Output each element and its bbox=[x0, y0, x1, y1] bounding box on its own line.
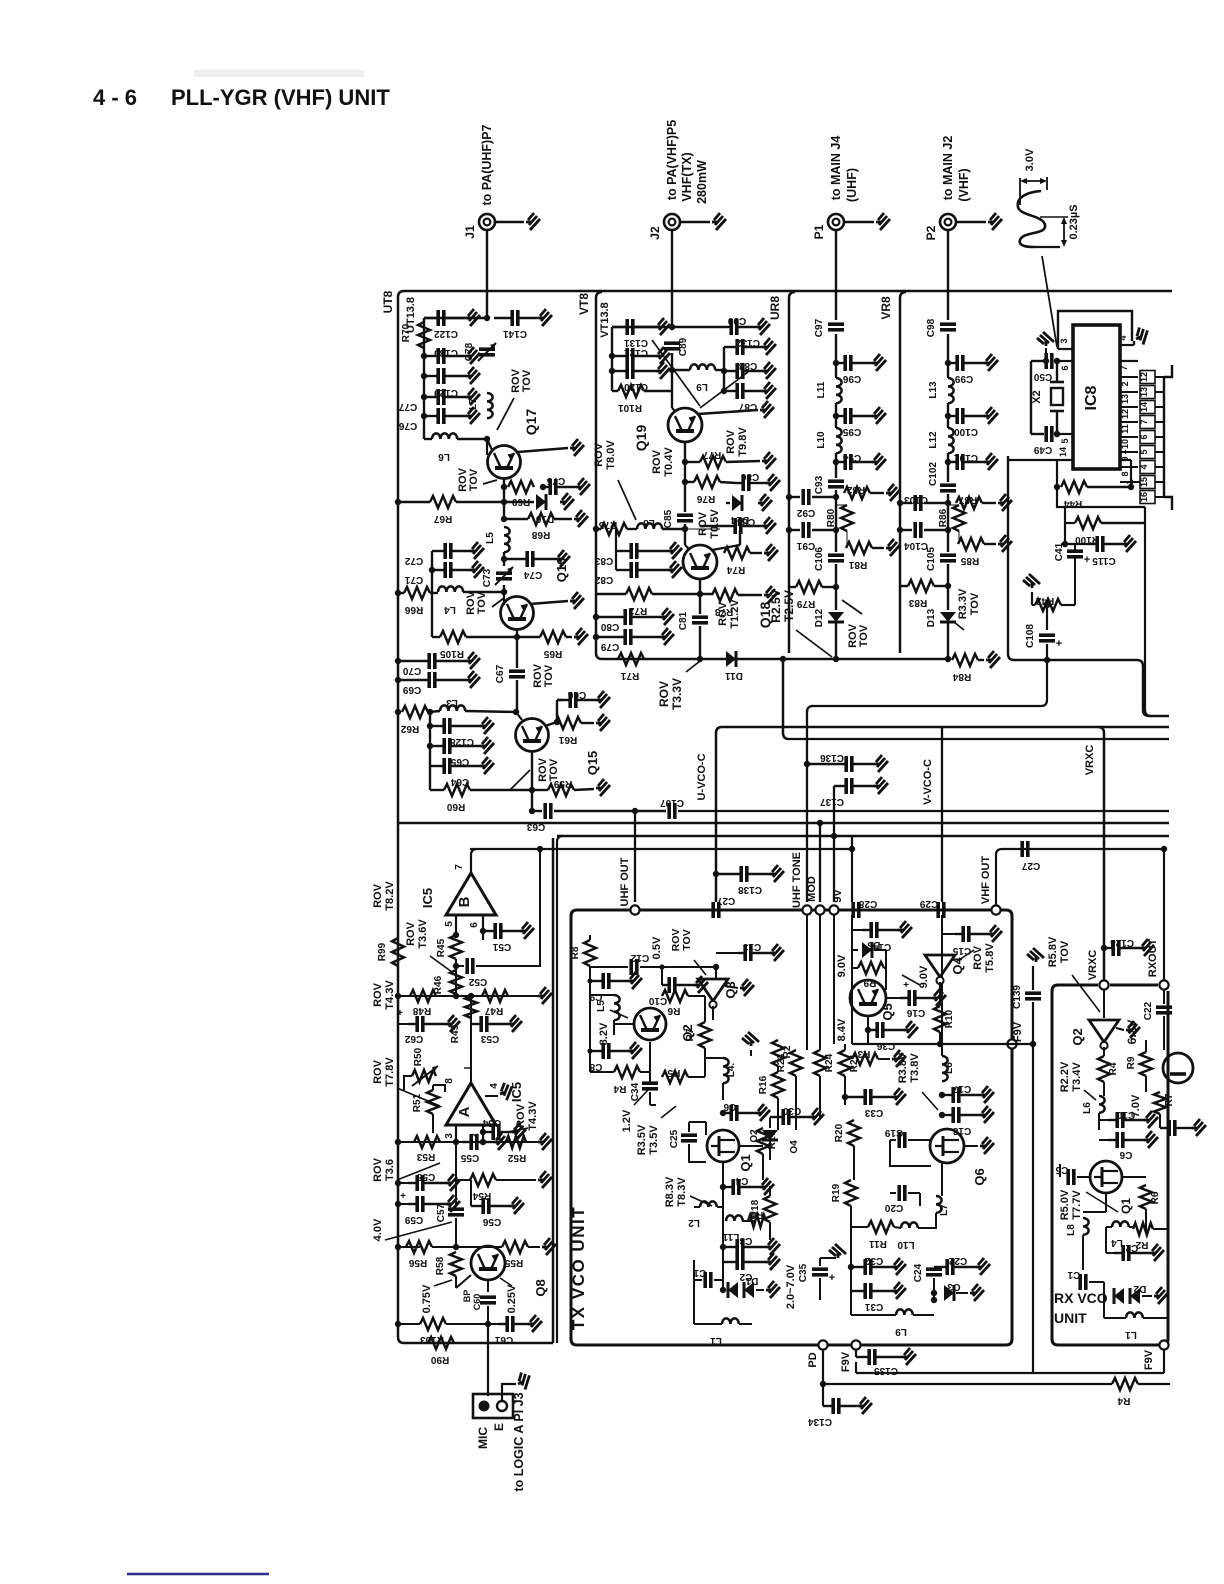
IC8 pins 15 16 bbox=[1140, 476, 1155, 489]
svg-text:C51: C51 bbox=[492, 941, 511, 952]
IC8 pin 4 ground bbox=[1120, 344, 1134, 346]
resistor R70 bbox=[418, 322, 430, 348]
svg-text:T4.3V: T4.3V bbox=[384, 980, 396, 1010]
svg-text:PD: PD bbox=[807, 1352, 819, 1367]
bus line y823 bbox=[398, 822, 1169, 824]
svg-text:R24: R24 bbox=[824, 1053, 835, 1072]
capacitor C7 rxvco edge bbox=[1160, 1127, 1168, 1129]
svg-text:ROV: ROV bbox=[372, 982, 384, 1007]
svg-text:R79: R79 bbox=[796, 598, 815, 609]
ground Q1 txvco bbox=[722, 1162, 724, 1170]
capacitor C63 series bbox=[545, 803, 551, 819]
svg-text:L3: L3 bbox=[446, 697, 458, 708]
svg-text:Q3: Q3 bbox=[723, 981, 738, 998]
svg-text:R50: R50 bbox=[413, 1047, 424, 1066]
svg-text:R80: R80 bbox=[826, 508, 837, 527]
svg-text:L4: L4 bbox=[444, 604, 456, 615]
svg-text:C79: C79 bbox=[600, 641, 619, 652]
pin4 ground bbox=[485, 1095, 498, 1097]
wire pin14 to R44 bbox=[1056, 460, 1058, 487]
resistor R8 bbox=[589, 935, 591, 940]
top border line bbox=[404, 290, 1172, 293]
resistor R44 bbox=[1054, 484, 1060, 490]
svg-text:C121: C121 bbox=[624, 347, 648, 358]
svg-text:3: 3 bbox=[444, 1133, 455, 1139]
capacitor C32 bbox=[851, 1266, 864, 1268]
svg-text:R67: R67 bbox=[433, 513, 452, 524]
wire Q8 emitter bbox=[487, 1280, 489, 1292]
svg-text:C141: C141 bbox=[503, 328, 527, 339]
capacitor C105 series bbox=[940, 555, 956, 561]
capacitor C137 bbox=[834, 785, 845, 787]
svg-text:6.2V: 6.2V bbox=[1125, 1020, 1139, 1045]
terminal UHF TONE bbox=[802, 905, 811, 914]
connector P1 bbox=[828, 214, 844, 230]
FET Q6 bbox=[930, 1129, 964, 1163]
capacitor C79 bbox=[593, 634, 599, 640]
capacitor C122 bbox=[424, 317, 437, 319]
svg-text:C28: C28 bbox=[858, 898, 877, 909]
svg-text:C22: C22 bbox=[948, 1255, 967, 1266]
svg-text:L10: L10 bbox=[816, 431, 827, 449]
svg-text:Q8: Q8 bbox=[533, 1279, 548, 1296]
svg-text:to PA(UHF)P7: to PA(UHF)P7 bbox=[480, 124, 494, 205]
svg-text:R5: R5 bbox=[667, 1067, 680, 1078]
resistor R101 bbox=[612, 390, 618, 392]
terminal MOD bbox=[815, 905, 824, 914]
node L9 bbox=[669, 367, 675, 373]
svg-text:+: + bbox=[1084, 554, 1090, 566]
svg-text:C56: C56 bbox=[482, 1216, 501, 1227]
capacitor C5 series bbox=[1059, 1164, 1061, 1177]
VR8 block left border bbox=[900, 292, 906, 653]
svg-text:C49: C49 bbox=[1033, 444, 1052, 455]
svg-text:C61: C61 bbox=[494, 1334, 513, 1345]
svg-text:D2: D2 bbox=[1133, 1283, 1146, 1294]
svg-text:C36: C36 bbox=[876, 1040, 895, 1051]
svg-text:VT8: VT8 bbox=[577, 293, 591, 315]
svg-text:R56: R56 bbox=[408, 1257, 427, 1268]
svg-text:+: + bbox=[829, 1272, 835, 1284]
node J1/C141/C122 row bbox=[484, 315, 490, 321]
bias row y996 bbox=[398, 995, 540, 997]
capacitor C18 bbox=[942, 1114, 952, 1116]
RX VCO UNIT box bbox=[1052, 991, 1168, 1345]
svg-text:R6: R6 bbox=[667, 1005, 680, 1016]
svg-text:T7.7V: T7.7V bbox=[1071, 1190, 1083, 1220]
svg-text:R86: R86 bbox=[938, 508, 949, 527]
svg-text:C100: C100 bbox=[954, 426, 978, 437]
svg-text:B: B bbox=[456, 896, 473, 907]
inductor L6 txvco bbox=[942, 1056, 948, 1081]
svg-text:C130: C130 bbox=[434, 347, 458, 358]
svg-text:R87: R87 bbox=[958, 494, 977, 505]
resistor R53 bbox=[414, 1136, 440, 1148]
capacitor C1 rxvco bbox=[1082, 1270, 1084, 1282]
svg-text:3: 3 bbox=[1059, 338, 1069, 343]
capacitor C141 bbox=[494, 317, 511, 319]
inductor L8 rxvco bbox=[1105, 1193, 1107, 1212]
svg-text:PLL-YGR (VHF) UNIT: PLL-YGR (VHF) UNIT bbox=[171, 85, 390, 110]
bus y1384 with R4 bbox=[822, 1349, 824, 1384]
capacitor C76 bbox=[421, 413, 427, 419]
svg-text:MOD: MOD bbox=[806, 876, 818, 902]
svg-text:C19: C19 bbox=[884, 1127, 903, 1138]
svg-text:L9: L9 bbox=[696, 381, 708, 392]
terminal UHF OUT bbox=[630, 905, 639, 914]
svg-text:R11: R11 bbox=[869, 1238, 887, 1249]
resistor R9 rxvco bbox=[1140, 1052, 1152, 1076]
svg-text:C99: C99 bbox=[954, 373, 973, 384]
transistor Q2 txvco bbox=[634, 1008, 666, 1040]
svg-text:C96: C96 bbox=[842, 373, 861, 384]
inductor L13 bbox=[948, 378, 954, 403]
svg-text:L6: L6 bbox=[1082, 1102, 1093, 1114]
svg-text:C13: C13 bbox=[742, 941, 761, 952]
bus y705 bbox=[811, 705, 1041, 707]
svg-text:0.5V: 0.5V bbox=[651, 936, 663, 959]
svg-text:UHF TONE: UHF TONE bbox=[791, 852, 803, 908]
svg-text:VHF(TX): VHF(TX) bbox=[680, 152, 694, 201]
wire F9V down bbox=[1032, 1044, 1034, 1373]
capacitor C14 bbox=[852, 929, 862, 931]
capacitor C72 row bbox=[431, 551, 433, 593]
resistor R2 txvco bbox=[772, 1040, 784, 1066]
svg-text:0.25V: 0.25V bbox=[506, 1284, 518, 1313]
capacitor C66 bbox=[557, 699, 563, 701]
capacitor C69 bbox=[395, 677, 401, 683]
bus y1044 to F9V bbox=[852, 1043, 1033, 1045]
capacitor C107 series bbox=[669, 803, 675, 819]
svg-text:4 - 6: 4 - 6 bbox=[93, 85, 137, 110]
svg-text:C102: C102 bbox=[928, 462, 939, 486]
svg-text:L7: L7 bbox=[939, 1204, 950, 1216]
svg-text:R4: R4 bbox=[613, 1083, 626, 1094]
svg-text:C52: C52 bbox=[468, 976, 487, 987]
svg-text:MIC: MIC bbox=[476, 1427, 490, 1449]
svg-text:O3: O3 bbox=[947, 1281, 961, 1292]
svg-text:RX VCO: RX VCO bbox=[1054, 1290, 1108, 1306]
diode D2 rxvco bbox=[1089, 1281, 1104, 1283]
IC8 pin bus right bbox=[1163, 377, 1165, 497]
svg-text:L8: L8 bbox=[1066, 1224, 1077, 1236]
wire VHF OUT to RXOUT y849 bbox=[1002, 848, 1164, 850]
bus y739 bbox=[789, 738, 1169, 740]
svg-text:D1: D1 bbox=[745, 1275, 758, 1286]
resistor R85 bbox=[958, 531, 960, 544]
wire x852 drop to C28 bbox=[851, 836, 853, 902]
svg-text:+: + bbox=[1056, 638, 1062, 650]
wire Q6 column bbox=[941, 915, 943, 1056]
wire C108 down to bus bbox=[1046, 644, 1048, 700]
capacitor C94 bbox=[835, 453, 837, 478]
resistor R65 bbox=[514, 634, 520, 640]
svg-text:C135: C135 bbox=[874, 1365, 898, 1376]
svg-text:13: 13 bbox=[1139, 387, 1149, 397]
capacitor C124 bbox=[1101, 945, 1107, 951]
svg-text:T3.4V: T3.4V bbox=[1071, 1062, 1083, 1092]
svg-text:5: 5 bbox=[444, 921, 455, 927]
terminal F9V right bbox=[1007, 1039, 1016, 1048]
svg-text:Q16: Q16 bbox=[554, 558, 569, 583]
resistor R100 bbox=[1064, 507, 1066, 523]
wire MOD x820 bbox=[817, 820, 823, 826]
svg-text:R62: R62 bbox=[400, 723, 419, 734]
svg-text:Q2: Q2 bbox=[1070, 1028, 1085, 1045]
svg-text:(VHF): (VHF) bbox=[957, 168, 971, 201]
resistor R51 bbox=[427, 1090, 439, 1114]
capacitor C8 bbox=[590, 1050, 606, 1052]
svg-text:Q6: Q6 bbox=[972, 1168, 987, 1185]
svg-text:VR8: VR8 bbox=[879, 296, 893, 320]
svg-text:TOV: TOV bbox=[681, 929, 693, 950]
resistor R105 bbox=[431, 593, 433, 637]
svg-text:R10: R10 bbox=[944, 1009, 955, 1028]
svg-text:R20: R20 bbox=[834, 1123, 845, 1142]
resistor R54 bbox=[455, 1142, 457, 1180]
capacitor C115 bbox=[1082, 543, 1084, 545]
inductor L11 txvco bbox=[726, 1215, 743, 1221]
svg-text:R2.2V: R2.2V bbox=[1059, 1061, 1071, 1092]
svg-text:T3.5V: T3.5V bbox=[648, 1125, 660, 1155]
resistor R4 rxvco bbox=[1103, 1047, 1105, 1056]
svg-text:6: 6 bbox=[1060, 365, 1070, 370]
svg-text:R48: R48 bbox=[412, 1005, 431, 1016]
svg-text:L11: L11 bbox=[816, 381, 827, 398]
svg-text:R75: R75 bbox=[598, 519, 617, 530]
bias row y1324 bbox=[398, 1323, 420, 1325]
leader Q19 labels bbox=[700, 372, 748, 408]
resistor R81 bbox=[846, 531, 848, 548]
capacitor C96 bbox=[833, 360, 839, 366]
svg-text:7: 7 bbox=[1139, 419, 1149, 424]
svg-text:C58: C58 bbox=[416, 1171, 435, 1182]
svg-text:R4: R4 bbox=[1117, 1395, 1130, 1406]
capacitor C31 bbox=[851, 1290, 864, 1292]
inductor L10 txvco bbox=[901, 1222, 918, 1228]
svg-text:C85: C85 bbox=[663, 509, 674, 528]
capacitor C98 series bbox=[940, 324, 956, 330]
svg-text:L5: L5 bbox=[596, 1000, 607, 1012]
svg-text:X2: X2 bbox=[1031, 390, 1043, 403]
wire P2 to VR8 bbox=[947, 230, 949, 320]
svg-text:T2.5V: T2.5V bbox=[782, 590, 796, 622]
diode D10 bbox=[536, 494, 546, 510]
svg-text:E: E bbox=[492, 1423, 506, 1431]
capacitor C13 bbox=[716, 952, 738, 954]
node Q16 base bbox=[501, 589, 507, 595]
svg-text:C17: C17 bbox=[952, 1083, 971, 1094]
svg-text:C1: C1 bbox=[1067, 1269, 1080, 1280]
svg-text:R49: R49 bbox=[450, 1024, 461, 1043]
bus y811 with C63 C107 bbox=[532, 810, 542, 812]
bias row y1142 bbox=[398, 1141, 540, 1143]
bus y727 from U-VCO-C to VRXC bbox=[716, 727, 1169, 902]
svg-text:T0.5V: T0.5V bbox=[709, 509, 721, 539]
resistor R6 bbox=[665, 995, 667, 997]
node Q15 emitter bbox=[531, 752, 533, 790]
svg-text:VRXC: VRXC bbox=[1087, 950, 1099, 981]
capacitor C129 bbox=[421, 373, 427, 379]
resistor R103 bbox=[420, 1318, 446, 1330]
capacitor C27 on edge bbox=[713, 902, 719, 918]
IC8 pin 7 bbox=[1120, 360, 1138, 362]
bottom border of AF block bbox=[404, 1342, 553, 1345]
capacitor C90 bbox=[672, 326, 726, 328]
resistor R18 bbox=[764, 1196, 776, 1222]
svg-text:UR8: UR8 bbox=[768, 296, 782, 320]
svg-text:C88: C88 bbox=[738, 360, 757, 371]
svg-text:C86: C86 bbox=[740, 471, 759, 482]
ground Q6 gate bbox=[963, 1145, 978, 1147]
terminal RXOUT bbox=[1159, 980, 1168, 989]
wire op-amp B output bus y849 bbox=[470, 848, 852, 850]
resistor R19 bbox=[845, 1180, 857, 1206]
resistor R87 bbox=[948, 502, 958, 504]
capacitor C138 bbox=[713, 871, 719, 877]
svg-text:C104: C104 bbox=[904, 540, 928, 551]
svg-text:C35: C35 bbox=[798, 1263, 809, 1282]
wire Q16 collector to ground bbox=[530, 601, 568, 604]
svg-text:to LOGIC A PI J3: to LOGIC A PI J3 bbox=[512, 1392, 526, 1491]
svg-text:+: + bbox=[400, 1191, 406, 1202]
svg-text:C54: C54 bbox=[482, 1117, 501, 1128]
svg-text:16: 16 bbox=[1139, 492, 1149, 502]
resistor R48 bbox=[410, 990, 436, 1002]
capacitor C139 series bbox=[1032, 966, 1034, 990]
svg-text:L5: L5 bbox=[485, 532, 496, 544]
wire RXOUT drop bbox=[1163, 849, 1165, 980]
svg-text:R82: R82 bbox=[846, 484, 865, 495]
svg-text:C62: C62 bbox=[404, 1033, 423, 1044]
capacitor C52 series bbox=[453, 963, 459, 969]
resistor R56 bbox=[406, 1241, 432, 1253]
capacitor C20 series bbox=[890, 1192, 896, 1194]
svg-text:R66: R66 bbox=[404, 604, 423, 615]
svg-text:ROV: ROV bbox=[515, 1103, 527, 1128]
wire C122 column bbox=[424, 317, 487, 319]
transistor Q5 bbox=[850, 980, 886, 1016]
svg-text:C107: C107 bbox=[660, 797, 684, 808]
svg-text:R61: R61 bbox=[558, 734, 577, 745]
inductor L4 txvco bbox=[705, 1057, 723, 1059]
svg-text:C41: C41 bbox=[1054, 542, 1065, 561]
svg-text:R77: R77 bbox=[702, 449, 721, 460]
node R68 bbox=[503, 502, 505, 519]
capacitor C29 on edge bbox=[938, 902, 944, 918]
crystal X2 bbox=[1056, 361, 1058, 382]
svg-text:ROV: ROV bbox=[651, 449, 663, 474]
inductor L10 bbox=[836, 428, 842, 453]
svg-text:T8.0V: T8.0V bbox=[605, 440, 617, 470]
capacitor C51 bbox=[483, 930, 496, 932]
svg-text:R18: R18 bbox=[750, 1199, 761, 1218]
terminal F9V bottom bbox=[851, 1340, 860, 1349]
svg-text:J1: J1 bbox=[463, 225, 477, 239]
inductor L6 bbox=[424, 438, 432, 440]
svg-text:C93: C93 bbox=[814, 475, 825, 494]
svg-text:R3.3V: R3.3V bbox=[957, 588, 969, 619]
capacitor C136 bbox=[804, 761, 810, 767]
svg-text:C74: C74 bbox=[523, 569, 542, 580]
svg-text:R90: R90 bbox=[430, 1354, 449, 1365]
connector P2 bbox=[940, 214, 956, 230]
terminal F9V rxvco bbox=[1159, 1340, 1168, 1349]
node R76 bbox=[684, 462, 686, 482]
svg-text:R23: R23 bbox=[776, 1053, 787, 1072]
svg-text:D12: D12 bbox=[814, 608, 825, 627]
capacitor C28 on edge bbox=[853, 902, 859, 918]
svg-text:3.0V: 3.0V bbox=[1024, 148, 1036, 171]
svg-text:ROV: ROV bbox=[372, 883, 384, 908]
wire UHF TONE inside bbox=[806, 915, 808, 1050]
svg-text:C80: C80 bbox=[600, 621, 619, 632]
svg-text:R81: R81 bbox=[848, 559, 867, 570]
capacitor C75 bbox=[540, 484, 546, 490]
capacitor C16 bbox=[886, 997, 900, 999]
svg-text:C1: C1 bbox=[693, 1267, 706, 1278]
IC8 pin 14 bbox=[1008, 459, 1073, 461]
inductor L12 bbox=[948, 428, 954, 453]
connector J2 bbox=[664, 214, 680, 230]
transistor Q16 bbox=[501, 597, 534, 630]
capacitor C100 bbox=[947, 403, 949, 428]
svg-text:+: + bbox=[397, 1008, 403, 1019]
svg-text:C89: C89 bbox=[678, 337, 689, 356]
resistor R72 line bbox=[596, 593, 626, 595]
svg-text:15: 15 bbox=[1139, 477, 1149, 487]
wire J1 to UT8 bbox=[486, 230, 488, 318]
capacitor C134 bbox=[822, 1384, 824, 1406]
svg-text:Q1: Q1 bbox=[1119, 1198, 1133, 1214]
bias row y1247 bbox=[398, 1246, 420, 1248]
VT8 block left border bbox=[596, 292, 602, 659]
svg-text:ROV: ROV bbox=[717, 601, 729, 626]
svg-text:to PA(VHF)P5: to PA(VHF)P5 bbox=[665, 120, 679, 200]
capacitor C55 bbox=[462, 1141, 470, 1143]
svg-text:C90: C90 bbox=[727, 315, 746, 326]
svg-text:C122: C122 bbox=[434, 328, 458, 339]
capacitor C95 bbox=[835, 403, 837, 428]
svg-text:C71: C71 bbox=[404, 574, 423, 585]
wire UHF OUT drop bbox=[634, 811, 636, 902]
svg-text:T3.8V: T3.8V bbox=[909, 1053, 921, 1083]
svg-text:U-VCO-C: U-VCO-C bbox=[696, 753, 708, 800]
svg-text:R65: R65 bbox=[543, 648, 562, 659]
svg-text:C27: C27 bbox=[1021, 860, 1040, 871]
bias line y502 with R67 bbox=[398, 501, 430, 503]
resistor R71 on y659 bbox=[618, 653, 644, 665]
FET Q1 txvco bbox=[707, 1130, 739, 1162]
IC8 pin 5 bbox=[1054, 431, 1060, 437]
svg-text:R84: R84 bbox=[952, 671, 971, 682]
svg-text:C106: C106 bbox=[814, 547, 825, 571]
svg-text:P2: P2 bbox=[924, 225, 938, 240]
svg-text:C12: C12 bbox=[630, 952, 649, 963]
resistor R68 bbox=[504, 518, 528, 520]
page title bbox=[194, 70, 364, 77]
resistor R99 on border bbox=[392, 938, 404, 966]
wire Q15 collector bbox=[545, 700, 557, 726]
svg-text:TOV: TOV bbox=[858, 624, 870, 647]
svg-text:TOV: TOV bbox=[548, 758, 560, 781]
resistor R6 rxvco bbox=[1122, 1176, 1146, 1178]
svg-text:9V: 9V bbox=[832, 889, 844, 903]
svg-text:C33: C33 bbox=[864, 1107, 883, 1118]
inductor L1 rxvco bbox=[1103, 1296, 1105, 1318]
svg-text:C84: C84 bbox=[736, 516, 755, 527]
bias line y529 R75 L8 bbox=[593, 526, 599, 532]
